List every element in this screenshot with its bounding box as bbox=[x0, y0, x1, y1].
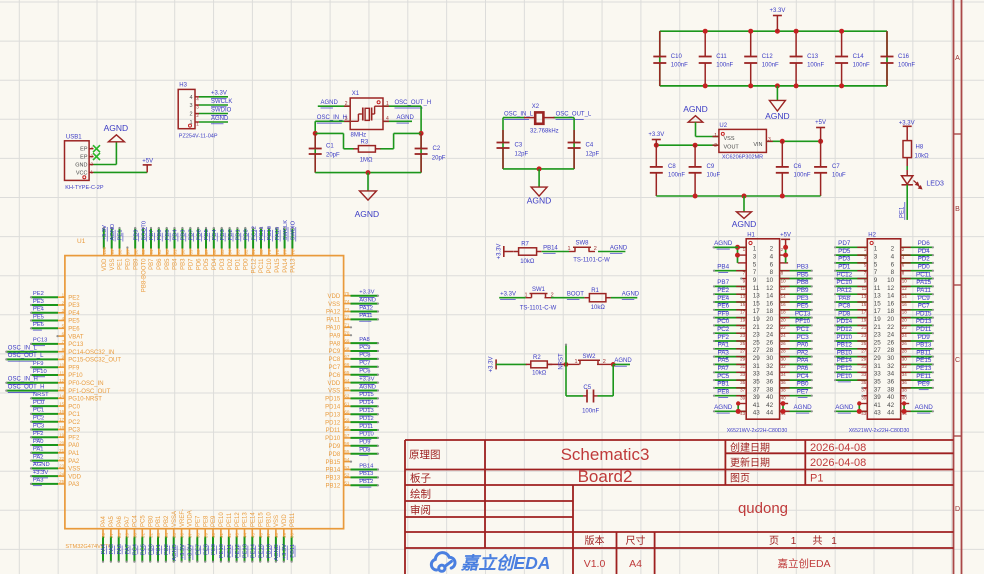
svg-text:X1: X1 bbox=[352, 91, 360, 97]
svg-text:29: 29 bbox=[874, 355, 882, 362]
svg-text:板子: 板子 bbox=[410, 472, 431, 485]
svg-text:尺寸: 尺寸 bbox=[626, 534, 646, 547]
svg-text:100nF: 100nF bbox=[716, 63, 733, 69]
svg-text:AGND: AGND bbox=[614, 358, 632, 364]
svg-text:PE5: PE5 bbox=[797, 303, 809, 310]
svg-text:PE10: PE10 bbox=[837, 373, 853, 380]
svg-text:PC1: PC1 bbox=[68, 412, 80, 418]
svg-text:H3: H3 bbox=[179, 83, 187, 89]
svg-text:100: 100 bbox=[102, 246, 107, 254]
svg-text:PE15: PE15 bbox=[258, 512, 264, 527]
svg-text:21: 21 bbox=[740, 325, 746, 330]
svg-text:+5V: +5V bbox=[780, 232, 791, 238]
svg-text:PD11: PD11 bbox=[326, 428, 341, 434]
svg-text:43: 43 bbox=[753, 410, 761, 417]
svg-text:H1: H1 bbox=[747, 233, 755, 239]
svg-text:29: 29 bbox=[740, 356, 746, 361]
svg-text:PC14-OSC32_IN: PC14-OSC32_IN bbox=[68, 350, 114, 356]
svg-text:PA2: PA2 bbox=[68, 459, 80, 465]
svg-text:PD9: PD9 bbox=[918, 334, 931, 341]
svg-text:PB9: PB9 bbox=[133, 258, 139, 270]
svg-text:AGND: AGND bbox=[915, 404, 934, 411]
svg-text:A: A bbox=[955, 55, 960, 62]
svg-text:100nF: 100nF bbox=[807, 63, 824, 69]
svg-text:PC8: PC8 bbox=[359, 353, 370, 359]
svg-text:PE9: PE9 bbox=[211, 515, 217, 527]
svg-text:+3.3V: +3.3V bbox=[769, 8, 785, 14]
svg-text:SW8: SW8 bbox=[575, 241, 589, 247]
svg-text:PE7: PE7 bbox=[797, 389, 809, 396]
svg-text:79: 79 bbox=[267, 249, 272, 255]
svg-text:PC0: PC0 bbox=[717, 318, 730, 325]
svg-text:C5: C5 bbox=[583, 385, 591, 391]
svg-text:审阅: 审阅 bbox=[410, 504, 431, 517]
svg-text:AGND: AGND bbox=[355, 209, 380, 219]
svg-text:PC9: PC9 bbox=[359, 345, 370, 351]
svg-text:6: 6 bbox=[770, 261, 774, 268]
svg-text:3: 3 bbox=[768, 137, 771, 143]
svg-text:X2: X2 bbox=[532, 104, 540, 110]
svg-text:12: 12 bbox=[887, 285, 895, 292]
svg-text:PD1: PD1 bbox=[236, 258, 242, 270]
svg-text:PD2: PD2 bbox=[228, 258, 234, 270]
svg-text:VDDA: VDDA bbox=[188, 510, 194, 527]
svg-text:98: 98 bbox=[118, 249, 123, 255]
svg-text:PD9: PD9 bbox=[359, 440, 370, 446]
svg-text:19: 19 bbox=[874, 316, 882, 323]
svg-text:23: 23 bbox=[861, 333, 867, 338]
svg-text:100nF: 100nF bbox=[762, 63, 779, 69]
svg-text:3: 3 bbox=[189, 103, 192, 109]
svg-text:2: 2 bbox=[770, 246, 774, 253]
svg-text:4: 4 bbox=[386, 116, 389, 122]
svg-text:31: 31 bbox=[753, 363, 761, 370]
svg-text:嘉立创EDA: 嘉立创EDA bbox=[777, 557, 830, 570]
svg-text:PA4: PA4 bbox=[797, 357, 809, 364]
svg-text:44: 44 bbox=[887, 410, 895, 417]
svg-text:PF9: PF9 bbox=[33, 361, 44, 367]
svg-text:AGND: AGND bbox=[622, 292, 640, 298]
svg-text:PB4: PB4 bbox=[717, 264, 729, 271]
svg-text:32: 32 bbox=[781, 364, 787, 369]
svg-text:+3.3V: +3.3V bbox=[359, 290, 374, 296]
svg-text:7: 7 bbox=[753, 269, 757, 276]
svg-text:1: 1 bbox=[791, 536, 797, 547]
svg-text:PD1: PD1 bbox=[838, 264, 851, 271]
svg-text:PA4: PA4 bbox=[101, 515, 107, 527]
svg-text:17: 17 bbox=[874, 308, 882, 315]
svg-text:4: 4 bbox=[891, 254, 895, 261]
svg-text:+3.3V: +3.3V bbox=[648, 132, 664, 138]
svg-text:VREF-: VREF- bbox=[180, 509, 186, 527]
svg-text:94: 94 bbox=[149, 249, 154, 255]
svg-text:PB14: PB14 bbox=[543, 245, 558, 251]
svg-text:SWDIO: SWDIO bbox=[211, 107, 232, 113]
svg-text:PD4: PD4 bbox=[212, 258, 218, 270]
svg-text:C3: C3 bbox=[515, 143, 523, 149]
svg-text:12pF: 12pF bbox=[515, 152, 529, 158]
svg-text:44: 44 bbox=[243, 532, 248, 538]
svg-text:R2: R2 bbox=[533, 355, 541, 361]
svg-text:3: 3 bbox=[753, 254, 757, 261]
svg-text:16: 16 bbox=[887, 300, 895, 307]
svg-text:23: 23 bbox=[874, 332, 882, 339]
svg-text:AGND: AGND bbox=[33, 462, 50, 468]
svg-text:PA8: PA8 bbox=[839, 295, 851, 302]
svg-text:PA2: PA2 bbox=[797, 349, 809, 356]
svg-text:PE8: PE8 bbox=[203, 515, 209, 527]
svg-text:PB14: PB14 bbox=[326, 468, 341, 474]
svg-text:96: 96 bbox=[133, 249, 138, 255]
svg-text:PE5: PE5 bbox=[33, 314, 44, 320]
svg-text:26: 26 bbox=[101, 532, 106, 538]
svg-text:PB6: PB6 bbox=[157, 258, 163, 270]
svg-text:37: 37 bbox=[740, 388, 746, 393]
svg-text:28: 28 bbox=[117, 532, 122, 538]
svg-text:26: 26 bbox=[781, 341, 787, 346]
svg-text:40: 40 bbox=[211, 532, 216, 538]
svg-text:PA13: PA13 bbox=[291, 258, 297, 273]
svg-text:33: 33 bbox=[874, 371, 882, 378]
svg-text:H2: H2 bbox=[868, 233, 876, 239]
svg-text:PD0: PD0 bbox=[918, 264, 931, 271]
svg-text:20pF: 20pF bbox=[326, 153, 340, 159]
svg-text:36: 36 bbox=[781, 380, 787, 385]
svg-text:PA9: PA9 bbox=[329, 333, 341, 339]
svg-text:78: 78 bbox=[275, 249, 280, 255]
svg-text:84: 84 bbox=[228, 249, 233, 255]
svg-text:42: 42 bbox=[887, 402, 895, 409]
svg-text:19: 19 bbox=[861, 317, 867, 322]
svg-text:27: 27 bbox=[874, 347, 882, 354]
svg-text:VSS: VSS bbox=[68, 467, 80, 473]
svg-text:PD12: PD12 bbox=[359, 416, 374, 422]
svg-text:PB3: PB3 bbox=[181, 258, 187, 270]
svg-text:PA3: PA3 bbox=[68, 482, 80, 488]
svg-text:PC13: PC13 bbox=[68, 342, 84, 348]
svg-text:PG10-NRST: PG10-NRST bbox=[68, 397, 102, 403]
svg-text:PE1: PE1 bbox=[118, 258, 124, 270]
svg-text:PA5: PA5 bbox=[717, 357, 729, 364]
svg-text:21: 21 bbox=[753, 324, 761, 331]
svg-text:PD0: PD0 bbox=[244, 258, 250, 270]
svg-text:2: 2 bbox=[345, 101, 348, 107]
svg-text:35: 35 bbox=[861, 380, 867, 385]
svg-text:13: 13 bbox=[874, 293, 882, 300]
svg-text:14: 14 bbox=[887, 293, 895, 300]
svg-text:TS-1101-C-W: TS-1101-C-W bbox=[573, 258, 610, 264]
svg-text:AGND: AGND bbox=[359, 297, 376, 303]
svg-text:PD7: PD7 bbox=[838, 240, 851, 247]
svg-text:90: 90 bbox=[181, 249, 186, 255]
svg-text:共: 共 bbox=[813, 535, 823, 547]
svg-text:26: 26 bbox=[887, 339, 895, 346]
svg-text:PB5: PB5 bbox=[165, 258, 171, 270]
svg-text:+3.3V: +3.3V bbox=[500, 292, 516, 298]
svg-text:39: 39 bbox=[203, 532, 208, 538]
svg-text:28: 28 bbox=[766, 347, 774, 354]
svg-text:PA11: PA11 bbox=[326, 318, 340, 324]
svg-text:EP: EP bbox=[80, 155, 88, 161]
svg-text:VSS: VSS bbox=[110, 259, 116, 271]
svg-text:PD10: PD10 bbox=[836, 334, 852, 341]
svg-text:OSC_IN_H: OSC_IN_H bbox=[317, 115, 347, 121]
svg-text:PF9: PF9 bbox=[68, 365, 80, 371]
svg-text:100nF: 100nF bbox=[898, 63, 915, 69]
svg-text:PE6: PE6 bbox=[717, 303, 729, 310]
svg-text:+3.3V: +3.3V bbox=[489, 356, 495, 372]
svg-text:31: 31 bbox=[861, 364, 867, 369]
svg-text:PC13: PC13 bbox=[33, 338, 48, 344]
svg-text:43: 43 bbox=[861, 411, 867, 416]
svg-text:VSS: VSS bbox=[328, 389, 340, 395]
svg-text:97: 97 bbox=[126, 249, 131, 255]
svg-text:10uF: 10uF bbox=[707, 173, 721, 179]
svg-text:PE10: PE10 bbox=[219, 512, 225, 527]
svg-text:PF1-OSC_OUT: PF1-OSC_OUT bbox=[68, 389, 110, 395]
svg-text:34: 34 bbox=[887, 371, 895, 378]
svg-text:39: 39 bbox=[753, 394, 761, 401]
svg-text:PE14: PE14 bbox=[837, 357, 853, 364]
svg-text:U1: U1 bbox=[77, 238, 86, 245]
svg-text:AGND: AGND bbox=[714, 404, 733, 411]
svg-text:VDD: VDD bbox=[282, 514, 288, 527]
svg-text:PB3: PB3 bbox=[797, 264, 809, 271]
svg-text:PB9: PB9 bbox=[797, 287, 809, 294]
svg-text:PC7: PC7 bbox=[329, 365, 341, 371]
svg-text:1: 1 bbox=[874, 246, 878, 253]
svg-text:PB14: PB14 bbox=[359, 463, 374, 469]
svg-text:AGND: AGND bbox=[359, 384, 376, 390]
svg-text:PA1: PA1 bbox=[717, 342, 729, 349]
svg-text:14: 14 bbox=[902, 294, 908, 299]
svg-text:原理图: 原理图 bbox=[409, 449, 441, 461]
svg-text:7: 7 bbox=[874, 269, 878, 276]
svg-text:26: 26 bbox=[766, 339, 774, 346]
svg-text:PC11: PC11 bbox=[259, 258, 265, 273]
svg-text:PB12: PB12 bbox=[326, 484, 341, 490]
svg-text:PD8: PD8 bbox=[329, 452, 341, 458]
svg-text:PE3: PE3 bbox=[68, 303, 80, 309]
svg-text:12: 12 bbox=[902, 286, 908, 291]
svg-text:33: 33 bbox=[156, 532, 161, 538]
svg-text:28: 28 bbox=[781, 349, 787, 354]
svg-text:6: 6 bbox=[891, 261, 895, 268]
svg-text:16: 16 bbox=[781, 302, 787, 307]
svg-text:32: 32 bbox=[148, 532, 153, 538]
svg-text:PB15: PB15 bbox=[326, 460, 341, 466]
svg-text:PC0: PC0 bbox=[33, 400, 44, 406]
svg-text:37: 37 bbox=[874, 386, 882, 393]
svg-text:PA7: PA7 bbox=[717, 365, 729, 372]
svg-text:PE6: PE6 bbox=[33, 322, 44, 328]
svg-text:C6: C6 bbox=[794, 164, 802, 170]
svg-text:PD12: PD12 bbox=[325, 420, 341, 426]
svg-text:PC6: PC6 bbox=[359, 369, 370, 375]
svg-text:EP: EP bbox=[80, 147, 88, 153]
svg-text:36: 36 bbox=[180, 532, 185, 538]
svg-text:12: 12 bbox=[766, 285, 774, 292]
svg-text:绘制: 绘制 bbox=[410, 488, 431, 501]
svg-text:34: 34 bbox=[902, 372, 908, 377]
svg-text:27: 27 bbox=[753, 347, 761, 354]
svg-text:10: 10 bbox=[902, 278, 908, 283]
svg-text:PF10: PF10 bbox=[33, 369, 47, 375]
svg-text:24: 24 bbox=[766, 332, 774, 339]
svg-text:10kΩ: 10kΩ bbox=[915, 154, 930, 160]
svg-text:35: 35 bbox=[172, 532, 177, 538]
svg-text:29: 29 bbox=[861, 356, 867, 361]
svg-text:20pF: 20pF bbox=[432, 156, 446, 162]
svg-text:35: 35 bbox=[740, 380, 746, 385]
svg-text:88: 88 bbox=[196, 249, 201, 255]
svg-text:OSC_IN_H: OSC_IN_H bbox=[8, 377, 38, 383]
svg-text:D: D bbox=[955, 506, 960, 513]
svg-text:GND: GND bbox=[75, 163, 87, 169]
svg-text:PD11: PD11 bbox=[359, 424, 373, 430]
svg-text:C16: C16 bbox=[898, 54, 910, 60]
svg-text:22: 22 bbox=[887, 324, 895, 331]
svg-text:PB0: PB0 bbox=[797, 381, 809, 388]
svg-text:PA3: PA3 bbox=[33, 478, 44, 484]
svg-text:93: 93 bbox=[157, 249, 162, 255]
svg-text:44: 44 bbox=[766, 410, 774, 417]
svg-text:18: 18 bbox=[781, 310, 787, 315]
svg-text:32: 32 bbox=[887, 363, 895, 370]
svg-text:PD11: PD11 bbox=[916, 326, 932, 333]
svg-text:PA15: PA15 bbox=[275, 258, 281, 273]
svg-text:PA0: PA0 bbox=[33, 439, 44, 445]
svg-text:25: 25 bbox=[874, 339, 882, 346]
svg-text:47: 47 bbox=[266, 532, 271, 538]
svg-text:PC9: PC9 bbox=[918, 295, 931, 302]
svg-text:VCC: VCC bbox=[76, 170, 88, 176]
svg-text:38: 38 bbox=[902, 388, 908, 393]
svg-text:P1: P1 bbox=[810, 473, 823, 485]
svg-text:PC5: PC5 bbox=[717, 373, 730, 380]
svg-text:图页: 图页 bbox=[730, 473, 750, 485]
svg-text:18: 18 bbox=[902, 310, 908, 315]
svg-text:USB1: USB1 bbox=[66, 135, 82, 141]
svg-text:50: 50 bbox=[290, 532, 295, 538]
svg-text:PB12: PB12 bbox=[359, 479, 373, 485]
svg-text:17: 17 bbox=[753, 308, 761, 315]
svg-text:20: 20 bbox=[766, 316, 774, 323]
svg-text:PE9: PE9 bbox=[918, 381, 930, 388]
svg-text:PD6: PD6 bbox=[196, 258, 202, 270]
svg-text:2: 2 bbox=[891, 246, 895, 253]
svg-text:PF0-OSC_IN: PF0-OSC_IN bbox=[68, 381, 103, 387]
svg-text:VSS: VSS bbox=[328, 302, 340, 308]
svg-text:91: 91 bbox=[173, 249, 178, 255]
svg-text:PB1: PB1 bbox=[717, 381, 729, 388]
svg-text:18: 18 bbox=[766, 308, 774, 315]
svg-text:AGND: AGND bbox=[321, 100, 339, 106]
svg-text:27: 27 bbox=[861, 349, 867, 354]
svg-text:AGND: AGND bbox=[527, 196, 552, 206]
svg-text:C9: C9 bbox=[707, 164, 715, 170]
svg-text:11: 11 bbox=[753, 285, 760, 292]
svg-text:31: 31 bbox=[874, 363, 882, 370]
svg-text:+3.3V: +3.3V bbox=[359, 376, 374, 382]
svg-text:36: 36 bbox=[887, 379, 895, 386]
svg-text:PC6: PC6 bbox=[329, 373, 341, 379]
svg-text:100nF: 100nF bbox=[582, 409, 599, 415]
svg-text:V1.0: V1.0 bbox=[584, 558, 606, 570]
svg-text:PB1: PB1 bbox=[156, 515, 162, 527]
svg-text:+5V: +5V bbox=[815, 120, 826, 126]
svg-text:PA12: PA12 bbox=[359, 305, 373, 311]
svg-text:83: 83 bbox=[236, 249, 241, 255]
svg-text:38: 38 bbox=[887, 386, 895, 393]
svg-text:2: 2 bbox=[594, 246, 597, 252]
svg-text:81: 81 bbox=[251, 249, 256, 255]
svg-text:PD13: PD13 bbox=[325, 412, 341, 418]
svg-text:PB2: PB2 bbox=[164, 515, 170, 527]
svg-text:18: 18 bbox=[887, 308, 895, 315]
svg-text:PE13: PE13 bbox=[916, 365, 932, 372]
svg-text:86: 86 bbox=[212, 249, 217, 255]
svg-text:38: 38 bbox=[195, 532, 200, 538]
svg-text:PE11: PE11 bbox=[227, 512, 233, 527]
svg-text:SW2: SW2 bbox=[582, 354, 596, 360]
svg-text:12pF: 12pF bbox=[586, 152, 600, 158]
svg-text:PB10: PB10 bbox=[266, 512, 272, 527]
svg-text:更新日期: 更新日期 bbox=[730, 456, 770, 469]
svg-text:PC1: PC1 bbox=[33, 408, 44, 414]
svg-text:AGND: AGND bbox=[793, 404, 812, 411]
svg-text:11: 11 bbox=[874, 285, 881, 292]
svg-text:39: 39 bbox=[874, 394, 882, 401]
svg-text:PE8: PE8 bbox=[717, 389, 729, 396]
svg-text:VSS: VSS bbox=[274, 515, 280, 527]
svg-text:17: 17 bbox=[740, 310, 746, 315]
svg-text:77: 77 bbox=[283, 249, 288, 255]
svg-text:PF2: PF2 bbox=[717, 334, 729, 341]
svg-text:PD4: PD4 bbox=[918, 248, 931, 255]
svg-text:PC7: PC7 bbox=[918, 303, 931, 310]
svg-text:22: 22 bbox=[766, 324, 774, 331]
svg-text:29: 29 bbox=[125, 532, 130, 538]
svg-text:16: 16 bbox=[766, 300, 774, 307]
svg-text:LED3: LED3 bbox=[926, 181, 944, 188]
svg-text:C: C bbox=[955, 357, 960, 364]
svg-text:PB11: PB11 bbox=[290, 512, 296, 527]
svg-text:30: 30 bbox=[887, 355, 895, 362]
svg-text:PE4: PE4 bbox=[33, 307, 45, 313]
svg-text:40: 40 bbox=[766, 394, 774, 401]
svg-text:29: 29 bbox=[753, 355, 761, 362]
svg-text:PD10: PD10 bbox=[359, 432, 374, 438]
svg-text:PB5: PB5 bbox=[797, 271, 809, 278]
svg-text:80: 80 bbox=[259, 249, 264, 255]
svg-text:PA10: PA10 bbox=[326, 326, 341, 332]
svg-text:30: 30 bbox=[781, 356, 787, 361]
svg-text:22: 22 bbox=[902, 325, 908, 330]
svg-text:PE5: PE5 bbox=[68, 319, 80, 325]
svg-text:45: 45 bbox=[250, 532, 255, 538]
svg-text:43: 43 bbox=[235, 532, 240, 538]
svg-text:36: 36 bbox=[766, 379, 774, 386]
svg-text:AGND: AGND bbox=[765, 111, 790, 121]
svg-text:qudong: qudong bbox=[738, 500, 788, 517]
svg-text:PB10: PB10 bbox=[837, 349, 853, 356]
svg-text:PC4: PC4 bbox=[796, 373, 809, 380]
svg-text:PD15: PD15 bbox=[325, 397, 341, 403]
svg-text:76: 76 bbox=[291, 249, 296, 255]
svg-text:AGND: AGND bbox=[835, 404, 854, 411]
svg-text:PD13: PD13 bbox=[916, 318, 932, 325]
